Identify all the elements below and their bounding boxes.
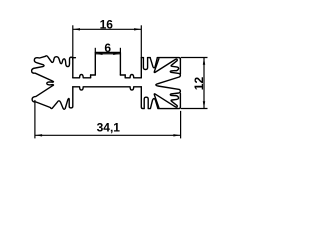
arrow 6 left	[96, 53, 103, 55]
slot floor left of tower	[91, 74, 96, 76]
right cluster right edge upper	[179, 59, 181, 74]
arrow 6 right	[113, 53, 120, 55]
tunnel ceiling left with nub	[73, 75, 91, 78]
tunnel floor with dips	[73, 87, 142, 90]
slot floor right of tower	[120, 74, 125, 76]
arrow 34,1 right	[173, 134, 180, 136]
dim 6 extension line left	[94, 48, 96, 53]
slot floor step right	[124, 75, 126, 78]
svg-text:16: 16	[100, 17, 114, 31]
arrow 16 left	[73, 28, 80, 30]
dim 16 line	[73, 28, 142, 30]
arrow 12 bottom	[203, 101, 205, 108]
dim 12 extension line bottom	[181, 108, 208, 110]
right cluster inner edge and bottom edge with hills	[141, 87, 180, 109]
arrow 34,1 left	[35, 134, 42, 136]
svg-text:34,1: 34,1	[97, 120, 121, 134]
dim 12 extension line top	[181, 57, 208, 59]
tunnel ceiling right with nub	[125, 75, 141, 78]
dim 6 extension line right	[119, 48, 121, 53]
arrow 12 top	[203, 58, 205, 65]
right cluster top U slit	[143, 58, 147, 70]
right cluster top V valley	[150, 58, 157, 68]
heatsink outer right wall	[140, 58, 142, 78]
dim 34,1 extension line right	[180, 111, 182, 138]
dim 34,1 line	[35, 134, 181, 136]
dim 12 line	[203, 58, 205, 109]
right cluster serpentine: slot, hook, curl, wedge and mirror	[154, 59, 180, 108]
left cluster outline (claw fingers, foot, wiggles)	[32, 56, 73, 109]
svg-text:6: 6	[104, 41, 111, 55]
right cluster top edge segments and corner	[141, 57, 143, 59]
slot floor step left	[90, 75, 92, 78]
dim 16 extension line right	[140, 25, 142, 57]
dim 34,1 extension line left	[34, 100, 36, 138]
arrow 16 right	[134, 28, 141, 30]
dim 16 extension line left	[72, 25, 74, 57]
svg-text:12: 12	[192, 77, 206, 91]
dim 6 line	[95, 53, 120, 55]
central tower: left wall, top, right wall	[95, 53, 120, 76]
heatsink outer left wall with top tick	[73, 58, 76, 78]
